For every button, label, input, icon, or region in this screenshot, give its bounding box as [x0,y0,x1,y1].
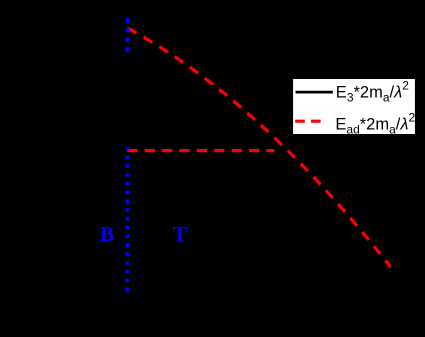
blue dotted vertical line, bottom segment [125,147,129,291]
red dashed adiabatic energy curve E_ad [128,28,391,267]
svg-text:T: T [173,222,188,247]
svg-text:B: B [100,222,114,246]
legend sample: red dashed line for E_ad [295,120,321,123]
legend box [292,78,415,135]
legend sample: black solid line for E_3 [296,91,333,94]
blue dotted vertical line, top segment [126,18,130,53]
red dashed horizontal threshold line [127,149,274,152]
